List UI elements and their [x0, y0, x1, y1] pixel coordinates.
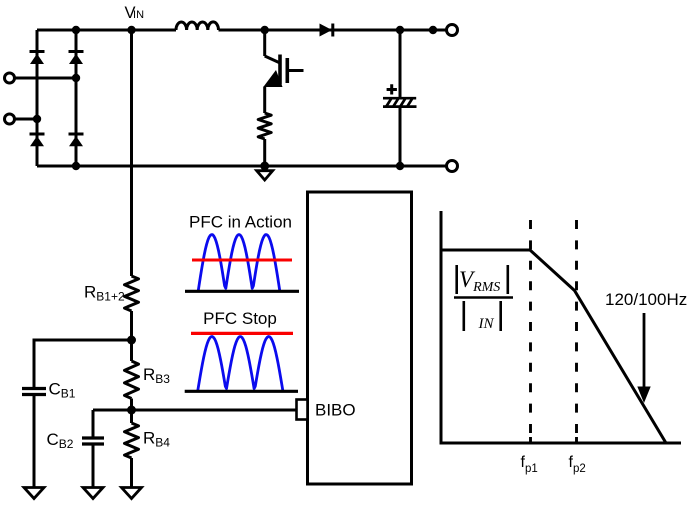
svg-text:IN: IN: [478, 316, 495, 332]
svg-text:fp2: fp2: [569, 454, 586, 475]
svg-text:CB1: CB1: [49, 380, 76, 401]
svg-text:fp1: fp1: [521, 454, 538, 475]
svg-text:VIN: VIN: [125, 4, 145, 22]
svg-text:RB3: RB3: [143, 365, 170, 386]
svg-text:120/100Hz: 120/100Hz: [605, 290, 687, 309]
svg-text:RB4: RB4: [143, 429, 170, 450]
svg-text:CB2: CB2: [47, 430, 74, 451]
svg-text:VRMS: VRMS: [459, 267, 500, 295]
svg-text:PFC Stop: PFC Stop: [203, 309, 277, 328]
svg-text:PFC in Action: PFC in Action: [189, 213, 292, 232]
svg-text:RB1+2: RB1+2: [84, 283, 125, 304]
svg-text:BIBO: BIBO: [315, 401, 356, 420]
